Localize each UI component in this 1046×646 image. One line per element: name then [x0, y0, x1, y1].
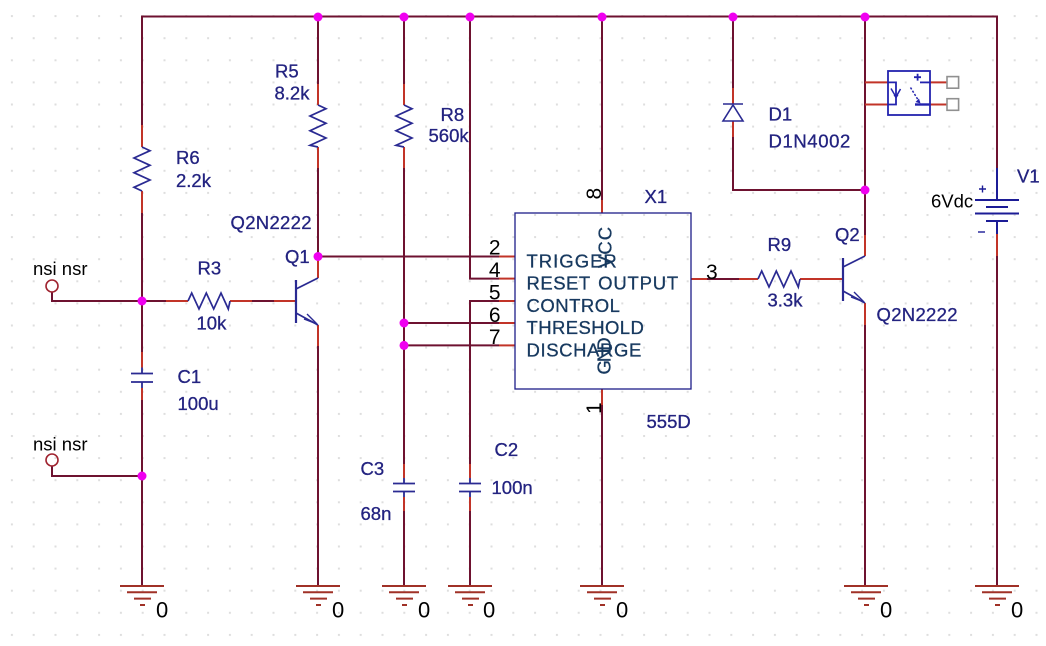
lead Q2 base/collector/emitter: [820, 235, 865, 325]
pin numbers: [489, 188, 718, 414]
wire opto column: [864, 17, 866, 236]
ground at C2 column: [448, 586, 492, 605]
resistor R8: [396, 105, 412, 147]
terminal circle nsi nsr top: [46, 280, 58, 292]
node labels: [33, 191, 973, 455]
svg-text:CONTROL: CONTROL: [527, 295, 621, 316]
wire pin7: [404, 344, 499, 346]
lead R8 top/bottom: [403, 84, 405, 168]
svg-text:7: 7: [489, 326, 501, 349]
svg-text:555D: 555D: [647, 411, 691, 432]
svg-text:VCC: VCC: [594, 226, 615, 268]
lead IC pin8: [601, 200, 603, 213]
wire V1 column: [996, 17, 998, 588]
resistor R5: [310, 105, 326, 147]
svg-text:100u: 100u: [178, 393, 219, 414]
wire nsi nsr top to junction: [52, 292, 167, 301]
lead Q1 base/collector/emitter: [274, 257, 318, 346]
lead IC pin4: [499, 278, 515, 280]
lead C2 top/bottom: [469, 464, 471, 511]
lead opto left pins: [865, 82, 888, 104]
svg-text:3: 3: [706, 261, 718, 284]
terminal circle nsi nsr bottom: [46, 454, 58, 466]
lead R9 left/right: [739, 278, 821, 280]
wire top rail: [141, 16, 998, 18]
ground at Q2 column: [844, 586, 888, 605]
wire C3 to ground: [403, 511, 405, 587]
svg-text:5: 5: [489, 281, 501, 304]
svg-text:0: 0: [483, 598, 495, 623]
battery V1: [975, 168, 1019, 234]
transistor Q2: [843, 256, 865, 303]
lead R3 left/right: [166, 300, 252, 302]
svg-text:10k: 10k: [197, 313, 228, 334]
svg-text:C2: C2: [495, 439, 519, 460]
svg-text:R6: R6: [176, 147, 200, 168]
svg-text:8.2k: 8.2k: [275, 83, 311, 104]
wire pin1 to ground: [601, 404, 603, 587]
lead R6 top/bottom: [141, 125, 143, 213]
ground at V1 column: [975, 586, 1019, 605]
lead IC pin3: [691, 278, 707, 280]
svg-text:nsi nsr: nsi nsr: [33, 433, 88, 454]
lead C3 top/bottom: [403, 464, 405, 511]
optocoupler arrow tip: [894, 95, 921, 104]
svg-text:nsi nsr: nsi nsr: [33, 258, 88, 279]
capacitor C3: [393, 478, 415, 497]
ground at C1 column: [120, 586, 164, 605]
svg-text:0: 0: [616, 598, 628, 623]
svg-text:D1: D1: [769, 104, 793, 125]
svg-text:2: 2: [489, 237, 501, 260]
capacitor C2: [459, 478, 481, 497]
svg-text:DISCHARGE: DISCHARGE: [527, 339, 642, 360]
svg-text:0: 0: [880, 598, 892, 623]
svg-text:C1: C1: [178, 366, 202, 387]
wire pin4 riser: [470, 17, 499, 279]
svg-text:2.2k: 2.2k: [176, 170, 212, 191]
svg-text:68n: 68n: [361, 503, 392, 524]
svg-text:560k: 560k: [429, 125, 470, 146]
svg-text:R9: R9: [768, 234, 792, 255]
ground at Q1 column: [296, 586, 340, 605]
svg-text:1: 1: [583, 402, 606, 414]
optocoupler U1 box: [888, 71, 930, 115]
wire nsi nsr bottom to junction: [52, 466, 142, 476]
svg-text:Q2: Q2: [835, 224, 860, 245]
wire pin8 column: [601, 17, 603, 201]
svg-text:V1: V1: [1017, 166, 1040, 187]
svg-text:RESET: RESET: [527, 273, 591, 294]
svg-text:GND: GND: [594, 338, 615, 375]
svg-text:Q2N2222: Q2N2222: [877, 304, 958, 325]
wire pin5 to C2: [470, 301, 499, 587]
lead IC pin6: [499, 322, 515, 324]
resistor R6: [134, 147, 150, 191]
wire left column R6/C1: [141, 16, 143, 588]
wire R8 column: [403, 17, 405, 465]
lead C1 top/bottom: [141, 352, 143, 400]
terminal square bottom: [947, 99, 959, 111]
svg-text:0: 0: [156, 598, 168, 623]
COMPONENT LEADS (red): [142, 82, 997, 511]
svg-text:8: 8: [583, 188, 606, 200]
diode D1: [723, 104, 743, 121]
IC box X1 555D: [515, 213, 691, 389]
wire R3 to Q1 base: [252, 300, 274, 302]
svg-text:Q2N2222: Q2N2222: [231, 212, 312, 233]
svg-text:3.3k: 3.3k: [768, 290, 804, 311]
lead IC pin2: [499, 256, 515, 258]
svg-text:100n: 100n: [492, 477, 533, 498]
svg-text:THRESHOLD: THRESHOLD: [527, 317, 645, 338]
svg-text:X1: X1: [645, 186, 668, 207]
wire D1 column: [733, 17, 865, 191]
resistor R9: [758, 271, 800, 287]
resistor R3: [188, 293, 230, 309]
svg-text:0: 0: [332, 598, 344, 623]
lead R5 top/bottom: [317, 84, 319, 168]
lead IC pin7: [499, 344, 515, 346]
svg-text:0: 0: [418, 598, 430, 623]
wire pin6: [404, 322, 499, 324]
capacitor C1: [131, 368, 153, 389]
svg-text:6Vdc: 6Vdc: [931, 191, 973, 212]
svg-text:6: 6: [489, 304, 501, 327]
svg-text:R5: R5: [275, 61, 299, 82]
svg-text:C3: C3: [361, 458, 385, 479]
ground at pin1 column: [580, 586, 624, 605]
ground at R8 column: [382, 586, 426, 605]
wire R5 column: [317, 17, 319, 258]
svg-text:R3: R3: [198, 258, 222, 279]
lead V1 bottom: [996, 234, 998, 256]
terminal square top: [947, 77, 959, 89]
lead IC pin1: [601, 389, 603, 405]
svg-text:Q1: Q1: [285, 246, 310, 267]
svg-text:0: 0: [1011, 598, 1023, 623]
transistor Q1: [296, 278, 318, 325]
svg-text:4: 4: [489, 259, 501, 282]
wire Q1 collector to pin2: [318, 256, 499, 258]
svg-text:OUTPUT: OUTPUT: [598, 273, 679, 294]
svg-text:R8: R8: [441, 104, 465, 125]
lead IC pin5: [499, 300, 515, 302]
wire pin3 to R9: [707, 278, 739, 280]
wire Q2 emitter to ground: [864, 325, 866, 587]
svg-text:D1N4002: D1N4002: [769, 131, 851, 152]
lead opto right pins: [930, 82, 947, 104]
wire Q1 emitter to ground: [317, 346, 319, 587]
IC pin names: [527, 226, 680, 375]
ground 0 labels: [156, 598, 1023, 623]
lead D1 top/bottom: [732, 88, 734, 137]
